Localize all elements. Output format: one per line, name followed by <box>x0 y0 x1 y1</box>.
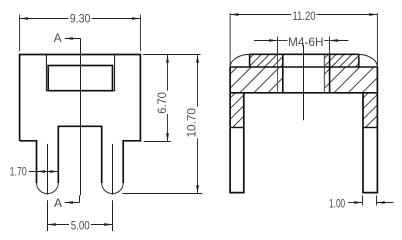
leg centerline right <box>112 144 114 231</box>
dim 10.70 top arrowhead <box>196 55 199 63</box>
svg-text:A: A <box>54 31 62 45</box>
leg centerline left <box>47 144 49 231</box>
dimension 9.30 <box>20 15 141 52</box>
left leg <box>230 93 244 193</box>
band separation line <box>230 66 377 68</box>
svg-text:5.00: 5.00 <box>71 219 90 233</box>
dim 9.30 right arrowhead <box>132 17 140 20</box>
dimension M4-6H <box>254 37 348 54</box>
dim 5.00 left arrowhead <box>48 223 56 226</box>
dim 11.20 right arrowhead <box>369 13 377 16</box>
cap rounded corner left (thin arc) <box>230 54 250 67</box>
dim 5.00 right arrowhead <box>104 223 112 226</box>
cap rounded corner right (thin arc) <box>359 54 378 67</box>
body outline <box>20 55 141 184</box>
dim M4-6H left arrowhead <box>269 39 277 42</box>
right leg <box>363 93 377 193</box>
svg-text:6.70: 6.70 <box>155 92 169 114</box>
cap outline <box>230 54 377 93</box>
section marker top A <box>54 31 81 45</box>
svg-text:M4-6H: M4-6H <box>288 35 324 49</box>
left leg hatch <box>230 93 244 128</box>
section line A-A <box>80 46 82 196</box>
dim 9.30 left arrowhead <box>20 17 28 20</box>
window outer thin rect <box>46 55 114 91</box>
centerline of hole <box>303 45 305 120</box>
svg-text:9.30: 9.30 <box>70 11 91 25</box>
dim 6.70 bottom arrowhead <box>166 133 169 141</box>
dim 1.00 right arrowhead <box>377 201 385 204</box>
window inner bold rect <box>48 66 112 91</box>
boss edge right <box>358 54 360 67</box>
dimension 1.70 <box>29 171 58 173</box>
thread major left (thin) <box>277 54 279 93</box>
dim 6.70 top arrowhead <box>166 55 169 63</box>
dim 10.70 bottom arrowhead <box>196 185 199 193</box>
right cap block hatch <box>324 67 377 93</box>
dimension 5.00 <box>48 224 113 226</box>
section marker bottom A <box>54 195 80 210</box>
right band boss hatch <box>324 54 358 67</box>
thread major right (thin) <box>329 54 331 93</box>
dim 1.70 right arrowhead <box>50 170 58 173</box>
right leg U arc <box>102 183 124 194</box>
dimension 1.00 <box>348 195 394 205</box>
dimension 6.70 <box>143 55 201 142</box>
svg-text:11.20: 11.20 <box>292 9 315 23</box>
right leg hatch <box>363 93 377 128</box>
dim M4-6H right arrowhead <box>330 39 338 42</box>
boss edge left <box>249 54 251 67</box>
svg-text:A: A <box>54 196 62 210</box>
left band boss hatch <box>250 54 283 67</box>
dim 11.20 left arrowhead <box>230 13 238 16</box>
svg-text:10.70: 10.70 <box>185 108 199 138</box>
svg-text:1.00: 1.00 <box>329 197 345 211</box>
dimension 11.20 <box>230 13 377 65</box>
dim 1.70 left arrowhead <box>37 170 45 173</box>
hole minor left (bold) <box>282 54 284 93</box>
left leg U arc <box>37 183 59 194</box>
hole minor right (bold) <box>323 54 325 93</box>
left cap block hatch <box>230 67 283 93</box>
svg-text:1.70: 1.70 <box>10 164 27 178</box>
dim 1.00 left arrowhead <box>354 201 362 204</box>
dimension 10.70 <box>122 55 202 194</box>
